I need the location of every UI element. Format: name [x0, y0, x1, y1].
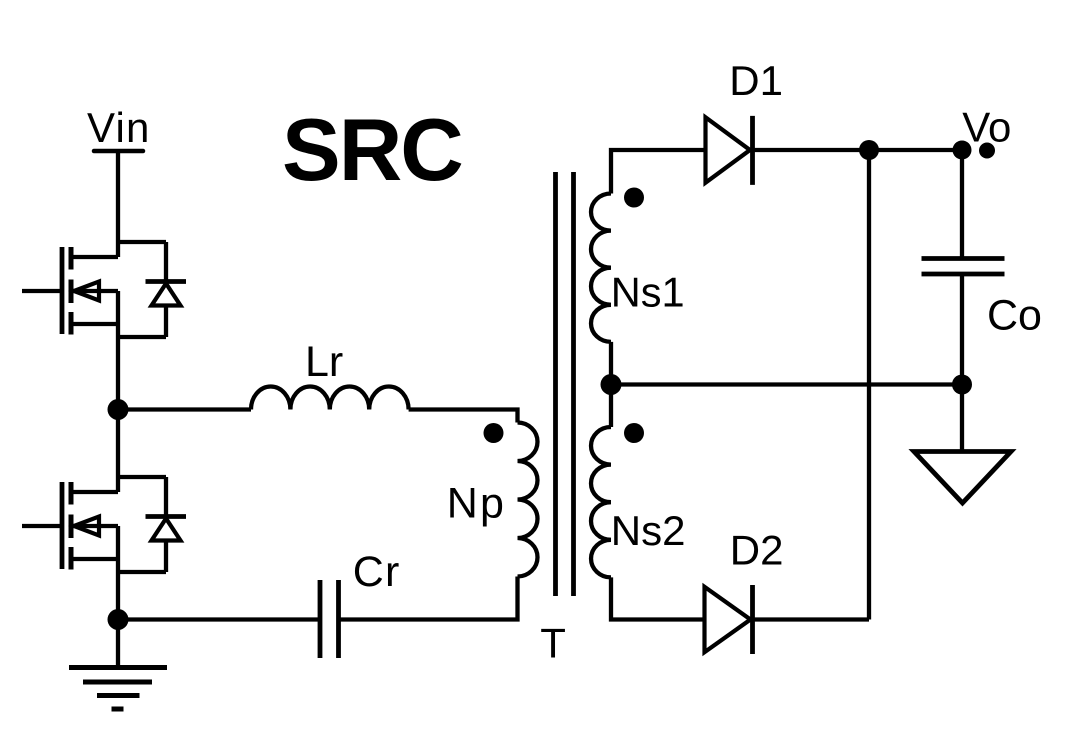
wire Cr to bottom node: [118, 617, 320, 621]
wire Ns2 bottom to D2: [611, 577, 703, 619]
wire Co to bottom wire: [960, 274, 964, 385]
center tap junction dot: [601, 374, 622, 395]
transistor Q1 gate lead: [22, 289, 62, 293]
transformer secondary winding Ns1: [591, 194, 611, 342]
wire primary bottom to Cr: [339, 577, 518, 620]
svg-text:D1: D1: [729, 57, 783, 104]
svg-text:T: T: [540, 620, 566, 667]
capacitor Cr: [320, 580, 339, 658]
ground (right) triangle: [914, 452, 1011, 504]
wire Vo down to Co: [960, 150, 964, 259]
svg-text:Np: Np: [447, 479, 506, 527]
wire Q2 body/source down to bottom node: [116, 526, 120, 620]
svg-text:Vo: Vo: [962, 103, 1011, 150]
wire Q1 source to body-diode bottom: [118, 335, 166, 339]
transistor Q1 drain lead: [73, 255, 118, 259]
wire Q2 drain to body-diode top: [118, 475, 166, 479]
diode D1: [706, 117, 751, 182]
wire D2 to right vertical: [753, 617, 869, 621]
capacitor Co: [922, 259, 1005, 275]
transistor Q2 channel bar: [69, 482, 74, 570]
wire node to ground (right): [960, 385, 964, 452]
transformer core: [556, 172, 574, 596]
diode Q2 body diode: [164, 477, 168, 517]
svg-text:Vin: Vin: [87, 104, 151, 151]
wire Ns1 to center tap: [609, 342, 613, 427]
wire node A to Lr: [118, 407, 251, 411]
transistor Q2 body lead: [73, 524, 118, 528]
primary polarity dot: [484, 423, 504, 443]
svg-text:SRC: SRC: [282, 100, 462, 199]
transistor Q1 channel bar: [69, 247, 74, 335]
terminal Vo dot: [979, 143, 995, 159]
ground (left): [116, 620, 120, 668]
diode Q1 body diode: [164, 242, 168, 282]
wire Vin down to Q1 drain: [116, 151, 120, 257]
junction dot right: [952, 375, 972, 395]
wire secondary top to D1: [611, 150, 704, 194]
inductor Lr: [251, 387, 409, 410]
node Vo dot: [953, 141, 972, 160]
wire right vertical D2 to D1 node: [867, 150, 871, 620]
transistor Q2 gate lead: [22, 524, 62, 528]
svg-text:Co: Co: [987, 292, 1042, 340]
svg-text:Ns2: Ns2: [611, 507, 686, 554]
wire Q1 source down to node A and Q2 drain: [116, 291, 120, 492]
Ns2 polarity dot: [624, 423, 644, 443]
transformer primary winding Np: [518, 423, 538, 577]
svg-text:Lr: Lr: [305, 338, 343, 386]
wire center tap to right ground node: [611, 382, 962, 386]
transistor Q2 body arrow: [74, 517, 99, 536]
Vin terminal bar: [94, 149, 143, 154]
junction dot D1 output: [859, 140, 879, 160]
wire Q2 source to body-diode bottom: [118, 570, 166, 574]
wire Q1 drain to body-diode top: [118, 240, 166, 244]
transistor Q1 body lead: [73, 289, 118, 293]
svg-text:Ns1: Ns1: [611, 268, 685, 315]
transistor Q2 gate bar: [60, 482, 65, 569]
transistor Q1 source lead: [73, 322, 118, 326]
wire D1 to Vo node: [755, 148, 963, 152]
transformer secondary winding Ns2: [591, 427, 611, 577]
diode D2: [705, 587, 751, 652]
node A junction dot: [108, 399, 129, 420]
svg-text:D2: D2: [730, 527, 784, 574]
Ns1 polarity dot: [624, 188, 644, 208]
transistor Q2 source lead: [73, 557, 118, 561]
wire Lr to transformer primary: [409, 410, 518, 423]
bottom node junction dot: [108, 609, 129, 630]
transistor Q1 body arrow: [74, 282, 99, 301]
transistor Q1 gate bar: [60, 247, 65, 334]
transistor Q2 drain lead: [73, 490, 118, 494]
svg-text:Cr: Cr: [353, 548, 401, 596]
